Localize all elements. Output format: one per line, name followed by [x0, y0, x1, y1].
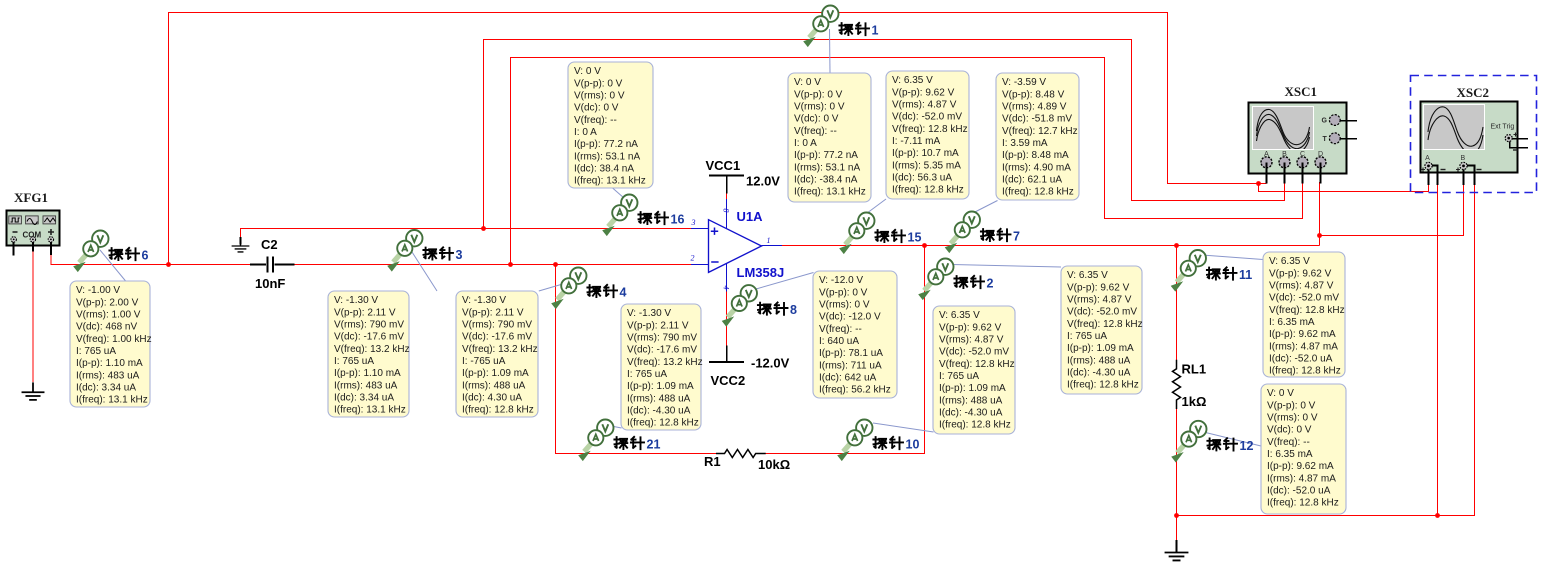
wire branch to XSC2 channel B+: [1320, 185, 1464, 236]
wire output node down to RL1: [1176, 246, 1178, 361]
svg-text:4: 4: [722, 286, 731, 290]
resistor RL1 1k load: [1173, 360, 1207, 409]
svg-text:7: 7: [1013, 230, 1020, 244]
wire op-amp -input node to XSC1 channel C: [511, 58, 1303, 265]
wire XFG1 + output to C2 (net 1): [51, 255, 251, 265]
probe connector line 探针21: [606, 425, 622, 428]
junction node J1: [166, 262, 171, 267]
svg-text:16: 16: [671, 213, 685, 227]
oscilloscope XSC2 selection box dashed: [1411, 76, 1537, 193]
XSC2 Ext Trig terminal: [1505, 133, 1528, 151]
svg-text:XSC2: XSC2: [1457, 85, 1490, 100]
probe connector line 探针11: [1202, 255, 1263, 260]
wire C2 to op-amp -input pin 2: [295, 264, 692, 266]
probe connector line 探针1: [829, 29, 832, 73]
svg-text:VCC2: VCC2: [711, 373, 746, 388]
probe connector line 探针4: [539, 285, 561, 292]
probe 探针8 (A/V measurement probe): [723, 285, 797, 326]
probe 探针12 (A/V measurement probe): [1172, 421, 1253, 462]
probe connector line 探针6: [100, 250, 126, 282]
power VCC1 +12V: [706, 158, 781, 194]
probe connector line 探针2: [952, 265, 1061, 268]
wire VCC1 red segment: [726, 194, 728, 200]
XSC1 terminal C: [1297, 151, 1308, 184]
op-amp pin number 2: [691, 254, 695, 263]
wire junction down to XSC2 channel A+: [1259, 184, 1429, 192]
op-amp pin number 4: [722, 286, 731, 290]
svg-text:2: 2: [987, 277, 994, 291]
XSC2 terminal A: [1421, 155, 1446, 185]
XFG1 COM terminal lead: [32, 242, 34, 252]
svg-text:3: 3: [691, 218, 696, 227]
probe 探针16 (A/V measurement probe): [603, 195, 684, 236]
svg-text:21: 21: [647, 438, 661, 452]
junction node J8: [1317, 233, 1322, 238]
ground at op-amp +input network: [232, 237, 250, 252]
svg-text:XSC1: XSC1: [1285, 84, 1318, 99]
power VCC2 -12V: [709, 346, 790, 389]
svg-text:VCC1: VCC1: [706, 158, 741, 173]
probe readout box for 探针15: [886, 71, 969, 199]
oscilloscope XSC1: [1249, 84, 1347, 174]
wire net1 up-and-over to XSC1 channel A: [169, 13, 1267, 265]
svg-text:11: 11: [1239, 268, 1252, 282]
junction node J3: [553, 262, 558, 267]
wire output node up to XSC1 channel D: [1319, 182, 1321, 246]
probe 探针2 (A/V measurement probe): [919, 259, 993, 300]
svg-text:Ext Trig: Ext Trig: [1491, 124, 1515, 131]
svg-text:A: A: [1425, 155, 1430, 162]
svg-text:LM358J: LM358J: [737, 265, 785, 280]
junction node J9: [1174, 513, 1179, 518]
oscilloscope XSC2: [1421, 85, 1518, 173]
svg-text:R1: R1: [704, 454, 721, 469]
probe readout box for 探针2: [1061, 266, 1143, 394]
svg-text:1: 1: [872, 24, 879, 38]
svg-text:-12.0V: -12.0V: [751, 356, 790, 371]
probe connector line 探针10: [873, 423, 934, 432]
svg-text:10nF: 10nF: [255, 276, 285, 291]
op-amp pin number 3: [691, 218, 696, 227]
probe 探针15 (A/V measurement probe): [840, 213, 921, 254]
probe 探针7 (A/V measurement probe): [946, 212, 1020, 253]
probe readout box for 探针1: [788, 73, 871, 202]
probe 探针21 (A/V measurement probe): [579, 420, 660, 461]
svg-text:RL1: RL1: [1182, 362, 1207, 377]
ground at bottom right load return: [1165, 540, 1189, 560]
op-amp pin number 1: [767, 236, 771, 245]
svg-text:4: 4: [620, 286, 627, 300]
wire VCC2 red segment: [726, 292, 728, 347]
junction node J5: [922, 243, 927, 248]
junction node J10: [1435, 513, 1440, 518]
svg-text:8: 8: [790, 303, 797, 317]
capacitor C2: [250, 237, 295, 291]
XSC2 terminal B: [1456, 155, 1482, 185]
svg-text:6: 6: [142, 249, 149, 263]
svg-text:12.0V: 12.0V: [746, 174, 780, 189]
wire RL1 down to ground net: [1176, 409, 1178, 542]
svg-text:1: 1: [767, 236, 771, 245]
XSC1 terminal B: [1279, 151, 1290, 184]
svg-text:8: 8: [722, 209, 731, 213]
probe 探针10 (A/V measurement probe): [838, 420, 919, 461]
svg-text:10kΩ: 10kΩ: [758, 457, 790, 472]
svg-text:10: 10: [906, 438, 920, 452]
svg-text:12: 12: [1240, 439, 1254, 453]
function generator XFG1: [7, 190, 60, 246]
probe readout box for 探针10: [933, 306, 1015, 434]
wire ground to op-amp +input pin 3: [241, 229, 692, 238]
svg-text:3: 3: [456, 248, 463, 262]
probe 探针1 (A/V measurement probe): [804, 6, 878, 47]
XSC1 terminal D: [1315, 151, 1326, 184]
probe readout box for 探针16: [568, 62, 653, 188]
svg-text:1kΩ: 1kΩ: [1182, 394, 1207, 409]
probe readout box for 探针12: [1261, 384, 1346, 514]
svg-text:T: T: [1323, 136, 1328, 143]
probe 探针6 (A/V measurement probe): [74, 231, 148, 272]
wire op-amp output node: [782, 245, 1320, 247]
XSC1 knob G: [1322, 115, 1358, 126]
probe readout box for 探针3: [328, 291, 410, 417]
svg-text:B: B: [1460, 155, 1465, 162]
wire feedback: -input node down to R1: [556, 265, 717, 454]
wire bottom ground net to XSC2 B-: [1177, 185, 1475, 516]
svg-text:15: 15: [908, 231, 922, 245]
wire XSC2 A- down to ground net: [1437, 185, 1439, 516]
probe readout box for 探针11: [1263, 252, 1345, 377]
probe connector line 探针15: [867, 199, 887, 214]
XFG1 plus terminal lead: [50, 242, 52, 255]
probe readout box for 探针4: [456, 291, 538, 417]
XFG1 minus terminal stub: [13, 242, 15, 256]
probe readout box for 探针7: [996, 73, 1079, 200]
svg-text:XFG1: XFG1: [14, 190, 48, 205]
probe connector line 探针12: [1204, 432, 1262, 446]
probe readout box for 探针8: [813, 271, 897, 398]
junction node J4: [481, 226, 486, 231]
svg-text:C2: C2: [261, 237, 278, 252]
probe readout box for 探针21: [621, 304, 703, 430]
op-amp pin number 8: [722, 209, 731, 213]
probe connector line 探针7: [972, 201, 998, 214]
svg-text:2: 2: [691, 254, 695, 263]
wire R1 to output node: [765, 246, 925, 454]
probe 探针11 (A/V measurement probe): [1172, 250, 1253, 291]
probe connector line 探针3: [412, 252, 437, 291]
probe connector line 探针16: [612, 188, 629, 203]
junction node J2: [508, 262, 513, 267]
svg-text:U1A: U1A: [737, 209, 764, 224]
ground under XFG1 COM: [22, 382, 45, 399]
probe connector line 探针8: [753, 273, 814, 291]
wire op-amp +input node to XSC1 channel B: [484, 40, 1285, 229]
XSC1 knob T: [1323, 133, 1358, 144]
resistor R1 10k feedback: [704, 450, 790, 473]
junction node J7: [1256, 181, 1261, 186]
probe 探针4 (A/V measurement probe): [552, 268, 626, 309]
wire XFG1 COM to ground: [32, 251, 34, 382]
probe readout box for 探针6: [70, 281, 152, 407]
XSC1 terminal A: [1261, 151, 1272, 184]
junction node J6: [1174, 243, 1179, 248]
op-amp U1A LM358J: [691, 199, 784, 292]
probe 探针3 (A/V measurement probe): [388, 230, 462, 271]
svg-text:G: G: [1322, 118, 1328, 125]
